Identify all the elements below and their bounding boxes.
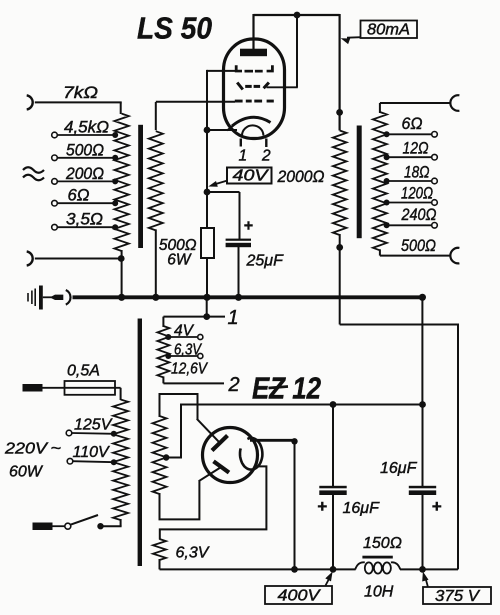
svg-text:LS 50: LS 50 — [137, 11, 212, 46]
svg-text:375 V: 375 V — [435, 588, 480, 605]
svg-text:18Ω: 18Ω — [404, 164, 430, 182]
svg-text:0,5A: 0,5A — [67, 363, 100, 380]
svg-text:16μF: 16μF — [380, 460, 418, 477]
svg-text:500Ω: 500Ω — [401, 237, 436, 255]
svg-text:4,5kΩ: 4,5kΩ — [64, 119, 109, 137]
svg-text:1: 1 — [239, 148, 248, 165]
svg-text:2: 2 — [228, 374, 240, 396]
svg-text:12Ω: 12Ω — [403, 140, 429, 158]
svg-text:2: 2 — [261, 148, 271, 165]
svg-text:7kΩ: 7kΩ — [63, 84, 98, 102]
svg-text:125V: 125V — [74, 417, 113, 434]
svg-text:110V: 110V — [73, 444, 111, 461]
svg-text:+: + — [244, 218, 253, 235]
svg-text:16μF: 16μF — [343, 500, 381, 517]
svg-text:10H: 10H — [364, 584, 394, 601]
svg-text:6W: 6W — [167, 252, 192, 269]
svg-text:6Ω: 6Ω — [68, 187, 90, 205]
svg-text:6,3V: 6,3V — [174, 342, 202, 359]
svg-text:12,6V: 12,6V — [171, 361, 208, 378]
svg-text:500Ω: 500Ω — [66, 141, 104, 159]
svg-text:220V ~: 220V ~ — [4, 441, 61, 458]
svg-text:+: + — [317, 497, 327, 516]
svg-text:120Ω: 120Ω — [401, 185, 433, 203]
svg-text:60W: 60W — [9, 464, 44, 481]
svg-text:150Ω: 150Ω — [363, 535, 402, 552]
svg-text:40V: 40V — [233, 168, 270, 185]
svg-text:240Ω: 240Ω — [401, 206, 437, 224]
svg-text:+: + — [432, 497, 442, 516]
svg-text:80mA: 80mA — [367, 22, 410, 39]
svg-text:6,3V: 6,3V — [176, 545, 210, 562]
svg-text:6Ω: 6Ω — [402, 115, 423, 133]
svg-text:400V: 400V — [278, 588, 321, 605]
svg-text:200Ω: 200Ω — [65, 165, 104, 183]
svg-text:2000Ω: 2000Ω — [277, 168, 325, 186]
svg-text:25μF: 25μF — [246, 253, 285, 270]
svg-text:4V: 4V — [174, 323, 195, 340]
svg-text:1: 1 — [228, 307, 239, 329]
svg-text:3,5Ω: 3,5Ω — [66, 211, 103, 229]
